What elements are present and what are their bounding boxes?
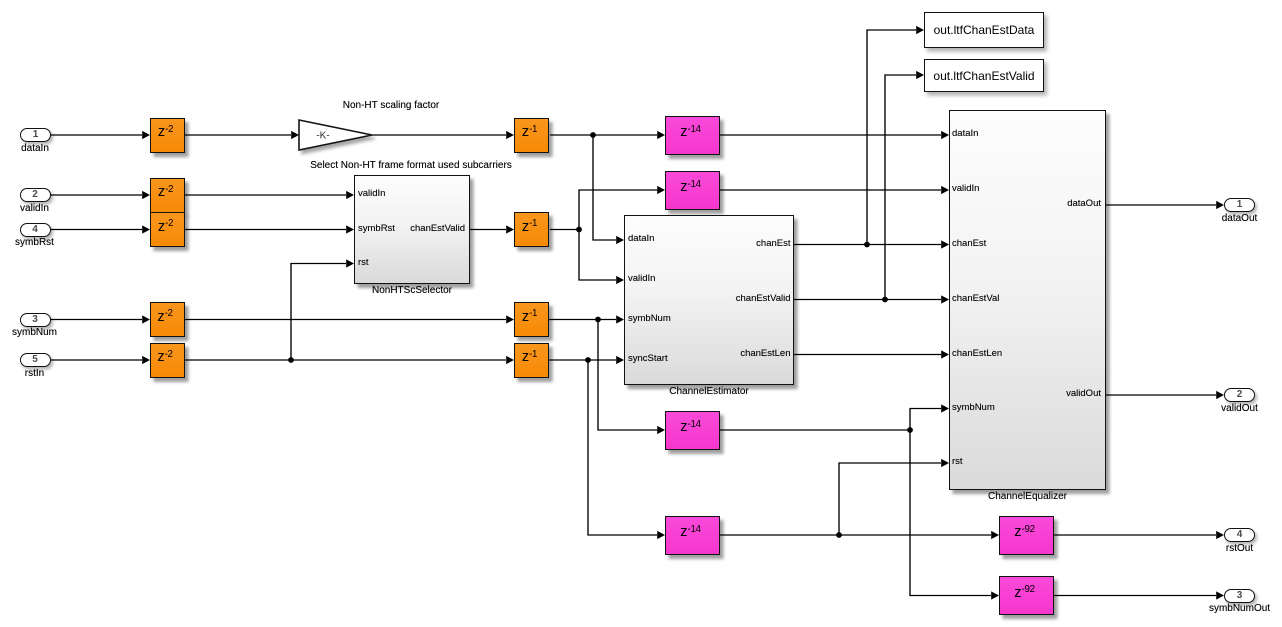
wire M3 to node d8 up to ChannelEqualizer symbNum	[720, 409, 941, 431]
arrowhead into M3	[657, 426, 665, 434]
outport 1 label dataOut	[1222, 213, 1258, 225]
arrowhead into Z2_5	[142, 356, 150, 364]
delay block Z1_1 (z^-1)	[514, 118, 549, 153]
outport box out.ltfChanEstData	[924, 12, 1044, 48]
arrowhead into M6	[991, 591, 999, 599]
node d6	[864, 242, 870, 248]
arrowhead into NonHTScSelector symbRst	[346, 225, 354, 233]
wire node d1 down to ChannelEstimator dataIn	[593, 135, 616, 240]
wire node d8 down to M6	[910, 430, 991, 596]
wire node d4 up to NonHTScSelector rst	[291, 264, 346, 361]
inport 3 label symbNum	[12, 327, 57, 339]
delay block M5 (z^-92)	[999, 516, 1054, 555]
node d8	[907, 427, 913, 433]
outport 3 symbNumOut	[1224, 589, 1255, 603]
outport 2 label validOut	[1221, 403, 1258, 415]
arrowhead into Z1_3	[506, 315, 514, 323]
pin label ChannelEqualizer chanEstLen	[952, 348, 1002, 359]
wire ChannelEstimator chanEstValid to ChannelEqualizer chanEstVal with node d7	[794, 299, 941, 301]
arrowhead into out.ltfChanEstData	[916, 26, 924, 34]
wire M2 to ChannelEqualizer validIn	[720, 189, 941, 191]
wire node d6 up to out.ltfChanEstData	[867, 30, 916, 245]
inport 4 label symbRst	[15, 237, 54, 249]
delay block M6 (z^-92)	[999, 576, 1054, 615]
inport 4 symbRst	[20, 223, 51, 237]
wire port4 to Z2_3	[50, 229, 142, 231]
arrowhead into port rstOut	[1216, 531, 1224, 539]
pin label ChannelEstimator chanEstLen	[740, 348, 790, 359]
node d9	[836, 532, 842, 538]
pin label ChannelEstimator chanEstValid	[736, 293, 791, 304]
arrowhead into gain	[291, 131, 299, 139]
delay block M3 (z^-14)	[665, 411, 720, 450]
arrowhead into NonHTScSelector validIn	[346, 191, 354, 199]
wire M5 to port rstOut	[1054, 534, 1216, 536]
wire Z2_1 to gain	[185, 134, 291, 136]
pin label NonHTScSelector chanEstValid	[410, 223, 465, 234]
outport 2 validOut	[1224, 388, 1255, 402]
delay block Z2_1 (z^-2)	[150, 118, 185, 153]
pin label ChannelEstimator symbNum	[628, 313, 671, 324]
arrowhead into M2	[657, 186, 665, 194]
arrowhead into ChannelEqualizer rst	[941, 459, 949, 467]
arrowhead into ChannelEqualizer chanEst	[941, 240, 949, 248]
wire Z1_4 to ChannelEstimator syncStart with node d5	[549, 359, 616, 361]
arrowhead into Z2_2	[142, 191, 150, 199]
inport 2 validIn	[20, 188, 51, 202]
subsystem NonHTScSelector	[354, 175, 470, 284]
delay block M4 (z^-14)	[665, 516, 720, 555]
wire Z2_5 to Z1_4 with node d4	[185, 359, 506, 361]
inport 1 dataIn	[20, 128, 51, 142]
wire Z1_3 to ChannelEstimator symbNum with node d3	[549, 319, 616, 321]
wire Z2_3 to NonHTScSelector symbRst	[185, 229, 346, 231]
wire node d9 up to ChannelEqualizer rst	[839, 463, 941, 535]
delay block Z2_2 (z^-2)	[150, 178, 185, 213]
arrowhead into ChannelEstimator dataIn	[616, 236, 624, 244]
node d1	[590, 132, 596, 138]
pin label ChannelEqualizer validOut	[1066, 388, 1101, 399]
name label ChannelEstimator	[669, 386, 748, 398]
arrowhead into ChannelEqualizer dataIn	[941, 131, 949, 139]
pin label ChannelEqualizer dataOut	[1067, 198, 1101, 209]
wire M6 to port symbNumOut	[1054, 595, 1216, 597]
arrowhead into Z1_4	[506, 356, 514, 364]
arrowhead into Z1_2	[506, 225, 514, 233]
subsystem ChannelEqualizer	[949, 110, 1106, 490]
wire M1 to ChannelEqualizer dataIn	[720, 134, 941, 136]
wire Z1_1 to M1 with node d1	[550, 134, 657, 136]
wire port1 to Z2_1	[50, 134, 142, 136]
wire ChannelEqualizer validOut to port validOut	[1106, 394, 1216, 396]
annotation Select Non-HT frame format used subcarriers	[310, 160, 512, 172]
arrowhead into ChannelEstimator syncStart	[616, 356, 624, 364]
wire ChannelEstimator chanEst to ChannelEqualizer chanEst with node d6	[794, 244, 941, 246]
wire node d3 down to M3	[598, 320, 657, 431]
arrowhead into ChannelEqualizer validIn	[941, 186, 949, 194]
delay block Z1_3 (z^-1)	[514, 302, 549, 337]
pin label ChannelEqualizer chanEst	[952, 238, 986, 249]
wire Z2_4 to Z1_3	[185, 319, 506, 321]
arrowhead into Z1_1	[506, 131, 514, 139]
subsystem ChannelEstimator	[624, 215, 794, 385]
delay block Z1_4 (z^-1)	[514, 343, 549, 378]
pin label NonHTScSelector symbRst	[358, 223, 395, 234]
arrowhead into port symbNumOut	[1216, 591, 1224, 599]
wire Z2_2 to NonHTScSelector validIn	[185, 194, 346, 196]
arrowhead into Z2_4	[142, 315, 150, 323]
inport 2 label validIn	[20, 203, 49, 215]
pin label NonHTScSelector rst	[358, 257, 369, 268]
outport 1 dataOut	[1224, 198, 1255, 212]
delay block M1 (z^-14)	[665, 116, 720, 155]
arrowhead into port dataOut	[1216, 201, 1224, 209]
inport 5 label rstIn	[25, 368, 44, 380]
outport 3 label symbNumOut	[1209, 603, 1270, 615]
node d4	[288, 357, 294, 363]
inport 3 symbNum	[20, 313, 51, 327]
arrowhead into ChannelEstimator symbNum	[616, 315, 624, 323]
wire node d2 up to M2	[579, 190, 657, 230]
pin label ChannelEqualizer symbNum	[952, 402, 995, 413]
delay block Z2_4 (z^-2)	[150, 302, 185, 337]
wire ChannelEstimator chanEstLen to ChannelEqualizer chanEstLen	[794, 354, 941, 356]
arrowhead into M1	[657, 131, 665, 139]
pin label ChannelEqualizer rst	[952, 456, 963, 467]
pin label NonHTScSelector validIn	[358, 188, 385, 199]
wire port3 to Z2_4	[50, 319, 142, 321]
pin label ChannelEstimator validIn	[628, 273, 655, 284]
arrowhead into Z2_3	[142, 225, 150, 233]
node d2	[576, 227, 582, 233]
arrowhead into out.ltfChanEstValid	[916, 71, 924, 79]
wire gain to Z1_1	[372, 134, 506, 136]
pin label ChannelEqualizer validIn	[952, 183, 979, 194]
node d7	[882, 297, 888, 303]
outport 4 label rstOut	[1226, 543, 1253, 555]
svg-text:-K-: -K-	[316, 131, 329, 142]
arrowhead into M5	[991, 531, 999, 539]
wire M4 to M5 with node d9	[720, 534, 991, 536]
pin label ChannelEqualizer chanEstVal	[952, 293, 999, 304]
wire Z1_2 to node d2	[550, 229, 579, 231]
arrowhead into ChannelEqualizer chanEstVal	[941, 295, 949, 303]
inport 5 rstIn	[20, 353, 51, 367]
inport 1 label dataIn	[21, 143, 49, 155]
arrowhead into ChannelEqualizer symbNum	[941, 404, 949, 412]
wire port5 to Z2_5	[50, 359, 142, 361]
wire node d2 down to ChannelEstimator validIn	[579, 230, 616, 281]
arrowhead into M4	[657, 531, 665, 539]
name label ChannelEqualizer	[988, 491, 1067, 503]
outport 4 rstOut	[1224, 528, 1255, 542]
wire ChannelEqualizer dataOut to port dataOut	[1106, 204, 1216, 206]
pin label ChannelEqualizer dataIn	[952, 128, 978, 139]
delay block Z1_2 (z^-1)	[514, 212, 549, 247]
arrowhead into ChannelEstimator validIn	[616, 276, 624, 284]
outport box out.ltfChanEstValid	[924, 59, 1044, 92]
arrowhead into ChannelEqualizer chanEstLen	[941, 350, 949, 358]
delay block Z2_5 (z^-2)	[150, 343, 185, 378]
node d3	[595, 317, 601, 323]
delay block Z2_3 (z^-2)	[150, 212, 185, 247]
wire port2 to Z2_2	[50, 194, 142, 196]
delay block M2 (z^-14)	[665, 171, 720, 210]
arrowhead into Z2_1	[142, 131, 150, 139]
pin label ChannelEstimator chanEst	[756, 238, 790, 249]
gain G1 (-K-) Non-HT scaling factor	[299, 120, 372, 150]
annotation Non-HT scaling factor	[343, 100, 440, 112]
name label NonHTScSelector	[372, 285, 452, 297]
pin label ChannelEstimator dataIn	[628, 233, 654, 244]
arrowhead into port validOut	[1216, 391, 1224, 399]
wire node d7 up to out.ltfChanEstValid	[885, 75, 916, 300]
wire NonHTScSelector chanEstValid to Z1_2	[470, 229, 506, 231]
wire node d5 down to M4	[588, 360, 657, 535]
arrowhead into NonHTScSelector rst	[346, 259, 354, 267]
node d5	[585, 357, 591, 363]
pin label ChannelEstimator syncStart	[628, 353, 668, 364]
